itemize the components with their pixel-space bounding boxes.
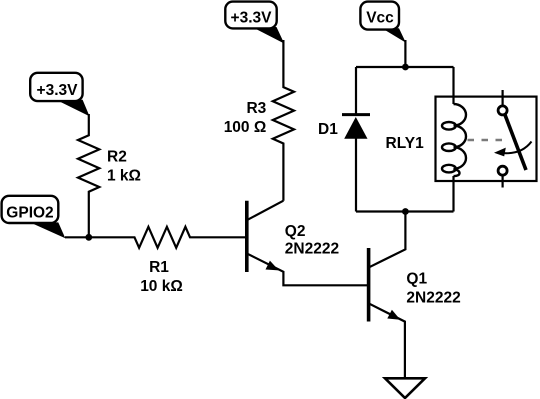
svg-text:Q2: Q2 (285, 223, 306, 240)
svg-text:+3.3V: +3.3V (231, 10, 273, 27)
svg-text:100 Ω: 100 Ω (224, 119, 267, 136)
svg-text:D1: D1 (318, 121, 338, 138)
svg-text:R3: R3 (246, 100, 266, 117)
svg-text:RLY1: RLY1 (386, 135, 425, 152)
svg-text:1 kΩ: 1 kΩ (107, 168, 141, 185)
svg-text:10 kΩ: 10 kΩ (140, 278, 183, 295)
svg-text:2N2222: 2N2222 (406, 290, 460, 307)
svg-text:R2: R2 (107, 149, 127, 166)
svg-text:GPIO2: GPIO2 (6, 205, 53, 222)
svg-text:+3.3V: +3.3V (37, 82, 79, 99)
svg-text:R1: R1 (149, 259, 169, 276)
svg-text:Vcc: Vcc (366, 10, 394, 27)
svg-text:Q1: Q1 (406, 271, 427, 288)
svg-text:2N2222: 2N2222 (285, 241, 339, 258)
